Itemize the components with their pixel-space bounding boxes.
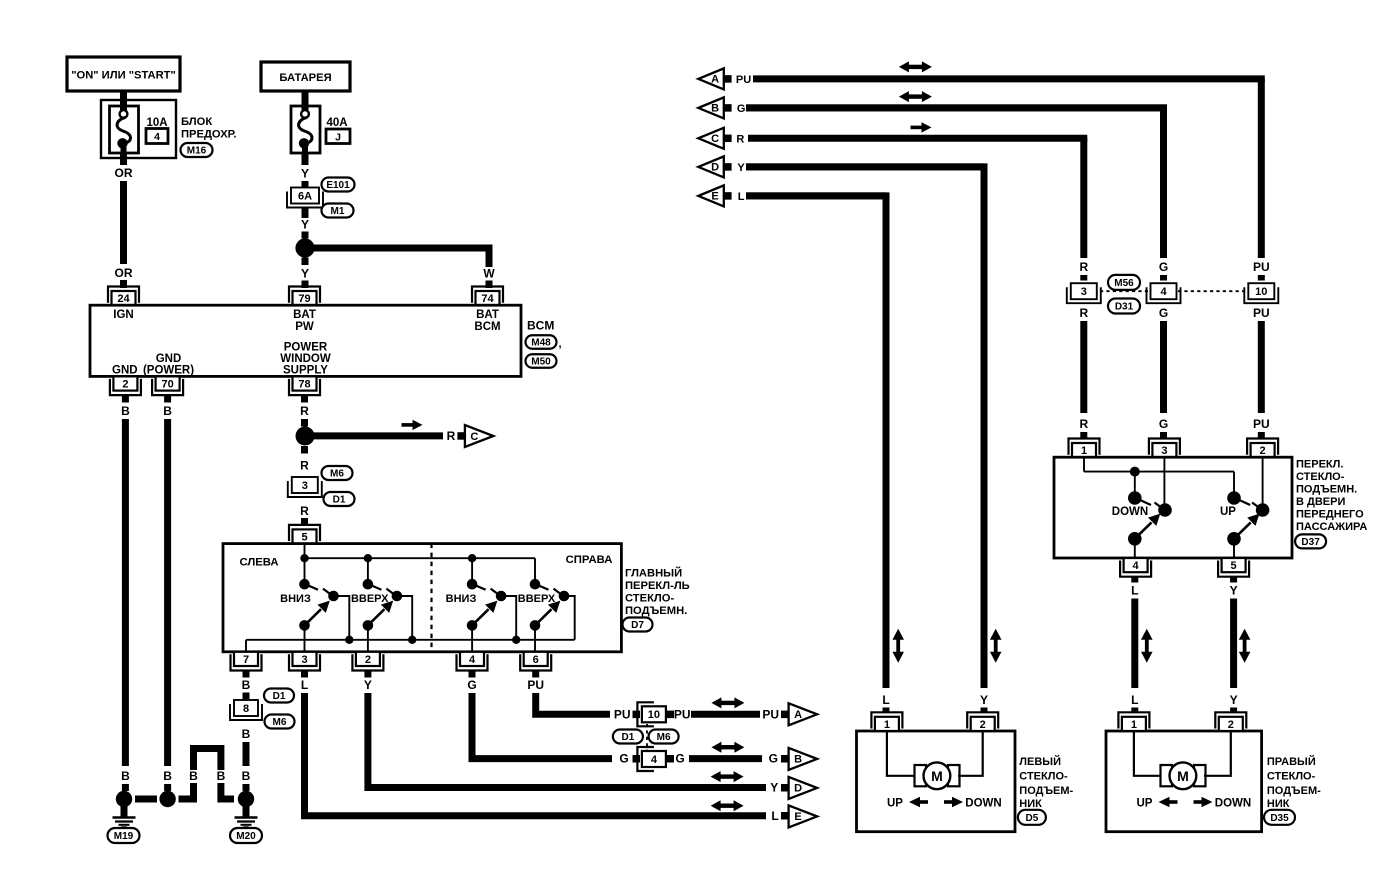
svg-text:L: L (771, 809, 778, 823)
pin 2 GND (110, 376, 141, 395)
connector oval D1 upper (324, 492, 355, 506)
triangle D left (698, 156, 724, 177)
pin 6 (520, 652, 551, 671)
double arrow L motor (892, 629, 904, 663)
svg-text:Y: Y (770, 781, 778, 795)
wire G row B horizontal (746, 104, 1167, 111)
wire B stub pin 7 (243, 671, 250, 678)
wire OR long segment (120, 181, 127, 264)
wire R vertical to conn 3 (1080, 138, 1087, 258)
label PU row A (736, 74, 751, 86)
svg-text:40A: 40A (326, 117, 347, 129)
label R above pin 5 (300, 504, 309, 518)
svg-text:74: 74 (481, 293, 494, 305)
svg-text:D: D (794, 783, 802, 795)
wire Y stub pin 2 (364, 671, 371, 678)
switch right down wire to pin (471, 625, 473, 651)
wire DOWN to pin 4 (1134, 539, 1136, 558)
label B below conn 8 (242, 727, 251, 741)
svg-text:W: W (483, 267, 495, 281)
square C row top (725, 135, 732, 143)
svg-text:D1: D1 (333, 495, 346, 506)
pin 3 (289, 652, 320, 671)
bottom bus dot 3 (512, 636, 520, 644)
svg-text:ВВЕРХ: ВВЕРХ (518, 593, 556, 605)
svg-text:4: 4 (651, 754, 658, 766)
double arrow G row (711, 742, 744, 753)
svg-text:GND: GND (156, 353, 182, 365)
svg-text:M6: M6 (273, 717, 287, 728)
svg-text:D35: D35 (1270, 813, 1289, 824)
svg-text:PU: PU (736, 74, 751, 86)
svg-text:СТЕКЛО-: СТЕКЛО- (625, 593, 674, 605)
wire L stub D35 pin 1 (1131, 708, 1138, 714)
fuse 10A F4 (110, 91, 139, 153)
switch right up contact dot (530, 579, 549, 590)
svg-text:C: C (470, 431, 478, 443)
svg-text:СТЕКЛО-: СТЕКЛО- (1296, 471, 1345, 483)
square R branch (457, 432, 465, 440)
square A row top (725, 75, 732, 83)
wire PU dash (1258, 275, 1265, 281)
svg-text:3: 3 (1081, 286, 1087, 298)
svg-text:G: G (675, 752, 684, 766)
D5 arrow right (944, 797, 963, 807)
svg-text:4: 4 (1133, 560, 1140, 572)
connector oval M48 (526, 335, 562, 350)
svg-text:2: 2 (1260, 445, 1266, 457)
label IGN (113, 309, 133, 321)
svg-text:M48: M48 (531, 338, 551, 349)
label L below pin 3 (301, 678, 308, 692)
fuse number box 4 (146, 129, 168, 144)
svg-text:M: M (931, 768, 943, 784)
svg-text:Y: Y (301, 167, 309, 181)
svg-text:M50: M50 (531, 357, 551, 368)
connector 3 inline (288, 477, 322, 497)
svg-text:R: R (300, 459, 309, 473)
svg-text:D1: D1 (273, 691, 286, 702)
switch right up lever arrow (530, 601, 561, 631)
svg-text:НИК: НИК (1019, 798, 1042, 810)
svg-text:6: 6 (533, 654, 539, 666)
triangle C left (698, 128, 724, 149)
svg-text:B: B (242, 678, 251, 692)
connector oval M1 (322, 204, 354, 218)
dashed link conn3 conn4 (1100, 290, 1149, 292)
svg-text:D: D (711, 162, 719, 174)
main switch box D7 (223, 544, 621, 652)
wire hump right (221, 783, 234, 799)
wire OR stub to pin 24 (120, 280, 127, 288)
label L above motor pin 1 (882, 693, 889, 707)
pin 7 (231, 652, 262, 671)
label PU below pin 6 (527, 678, 544, 692)
svg-text:2: 2 (1228, 719, 1234, 731)
wire pin 2 to UP moving (1262, 457, 1264, 510)
D5 wire pin1 to motor (887, 731, 915, 776)
svg-text:ВНИЗ: ВНИЗ (280, 593, 311, 605)
wire W stub (486, 281, 493, 289)
svg-text:В ДВЕРИ: В ДВЕРИ (1296, 496, 1345, 508)
top bus dot 1 (300, 554, 308, 562)
wire Y from fuse (302, 153, 309, 165)
svg-text:L: L (738, 191, 745, 203)
wire bus to DOWN contact (1134, 472, 1136, 498)
label B above M20 (242, 769, 251, 783)
svg-text:Y: Y (364, 678, 372, 692)
ground symbol M20 (235, 806, 258, 829)
wire G to triangle B (689, 755, 762, 762)
wire R dash (301, 419, 308, 427)
pin 78 supply (289, 376, 320, 395)
connector 10 top right (1244, 283, 1278, 303)
triangle A right (789, 703, 818, 725)
label DOWN (1112, 506, 1148, 518)
wire Y stub to pin 79 (302, 281, 309, 289)
svg-text:B: B (217, 769, 226, 783)
square Y row (781, 784, 789, 792)
connector 4 top right (1147, 283, 1181, 303)
svg-text:M20: M20 (236, 831, 256, 842)
D35 wire pin2 to motor (1204, 731, 1231, 776)
wire Y row D horizontal (746, 163, 984, 170)
label G row B (737, 103, 746, 115)
ground oval M19 (108, 828, 140, 843)
D35 pin 1 (1118, 712, 1149, 731)
wire R branch to C (313, 432, 443, 439)
wire bus to contact 2 (367, 558, 369, 584)
ground symbol M19 (113, 806, 136, 829)
wire B stub to M20 (243, 784, 250, 791)
label G right of conn 4 (675, 752, 684, 766)
wire bus corner to contact 4 (534, 558, 536, 584)
D5 motor M (924, 762, 951, 789)
svg-text:G: G (1159, 260, 1168, 274)
wire bus to contact 1 (304, 558, 306, 584)
wire Y vertical to motor D5 (746, 167, 984, 688)
svg-text:НИК: НИК (1267, 798, 1290, 810)
label R mid (300, 459, 309, 473)
wire PU stub pin 2 (1258, 432, 1265, 438)
label G below pin 4 (467, 678, 476, 692)
svg-text:2: 2 (122, 379, 128, 391)
top bus dot 3 (468, 554, 476, 562)
square D row top (725, 163, 732, 171)
label Y row D (737, 162, 745, 174)
D35 arrow left (1159, 797, 1178, 807)
svg-text:PU: PU (674, 707, 691, 721)
double arrow L D35 (1141, 629, 1153, 663)
bottom bus wire (246, 639, 575, 641)
svg-text:Y: Y (1230, 584, 1238, 598)
svg-text:D7: D7 (631, 620, 644, 631)
svg-text:E: E (711, 191, 718, 203)
svg-text:ПЕРЕКЛ.: ПЕРЕКЛ. (1296, 459, 1343, 471)
svg-text:L: L (1131, 693, 1138, 707)
svg-text:M1: M1 (331, 206, 345, 217)
wire R dash below junction (301, 446, 308, 454)
double arrow row B (899, 91, 932, 102)
connector oval M6 upper (322, 466, 353, 480)
switch left up wire to pin (367, 625, 369, 651)
wire G stub pin 3 (1160, 432, 1167, 438)
D37 bus dot (1130, 467, 1140, 477)
wire R stub to pin 5 (301, 518, 308, 525)
square G left (633, 755, 641, 763)
arrow right above R branch (402, 420, 423, 430)
svg-text:Y: Y (737, 162, 745, 174)
connector oval D37 (1295, 534, 1326, 548)
svg-text:7: 7 (243, 654, 249, 666)
svg-text:Y: Y (980, 693, 988, 707)
label B below pin 7 (242, 678, 251, 692)
switch left down wire to pin (304, 625, 306, 651)
svg-text:R: R (1079, 306, 1088, 320)
label BAT PW (293, 309, 316, 333)
label G left of conn 4 (619, 752, 628, 766)
svg-text:B: B (163, 404, 172, 418)
label БЛОК ПРЕДОХР. (181, 116, 237, 141)
svg-text:R: R (1079, 417, 1088, 431)
switch left up lever arrow (363, 601, 394, 631)
pin 79 BAT PW (289, 287, 320, 306)
label R above pin 1 (1079, 417, 1088, 431)
svg-text:БЛОК: БЛОК (181, 116, 212, 128)
svg-text:G: G (619, 752, 628, 766)
svg-text:E: E (794, 811, 801, 823)
pin 5 passenger switch (1218, 558, 1249, 577)
connector oval E101 (322, 178, 355, 192)
bottom bus dot 1 (345, 636, 353, 644)
D35 label UP (1137, 798, 1153, 810)
label R below conn 3 (1079, 306, 1088, 320)
wire R stub pin 1 (1080, 432, 1087, 438)
label R row C (736, 133, 744, 145)
svg-text:"ON" ИЛИ "START": "ON" ИЛИ "START" (71, 70, 176, 82)
square PU right (667, 711, 675, 719)
connector oval M6 bottom (649, 730, 679, 744)
svg-text:B: B (711, 103, 719, 115)
label OR (115, 166, 133, 180)
wire pin 3 to DOWN moving (1163, 457, 1165, 510)
wire from ON box to fuse (120, 91, 127, 104)
square B row top (725, 104, 732, 112)
label Y row (770, 781, 778, 795)
label G row (769, 752, 778, 766)
svg-text:5: 5 (301, 531, 307, 543)
DOWN contact dot (1128, 491, 1151, 505)
wire G vertical to conn 4 (746, 108, 1164, 258)
label 40A (326, 117, 347, 129)
wire G to conn 4 (472, 693, 612, 759)
double arrow Y row (711, 771, 744, 782)
D35 motor brackets (1161, 765, 1206, 786)
svg-text:PU: PU (1253, 306, 1270, 320)
DOWN bottom dot (1128, 532, 1142, 546)
wire between ground dots (135, 796, 157, 803)
wire B stub pin 70 (164, 395, 171, 403)
connector oval M50 (526, 354, 557, 368)
D35 motor M (1170, 762, 1197, 789)
square PU left (633, 711, 641, 719)
wire B long (243, 742, 250, 766)
svg-text:BAT: BAT (293, 309, 316, 321)
svg-text:D37: D37 (1301, 537, 1320, 548)
svg-text:C: C (711, 133, 719, 145)
svg-text:M16: M16 (187, 146, 207, 157)
svg-text:СТЕКЛО-: СТЕКЛО- (1019, 771, 1068, 783)
square PU row (781, 711, 789, 719)
triangle E left (698, 185, 724, 206)
label L row E (738, 191, 745, 203)
D5 wire pin2 to motor (958, 731, 983, 776)
dashed link conn4 conn10 (1178, 290, 1247, 292)
svg-text:ПОДЪЕМ-: ПОДЪЕМ- (1019, 785, 1073, 797)
wire pin5 into box (304, 544, 306, 559)
svg-text:M6: M6 (657, 732, 671, 743)
svg-text:6A: 6A (298, 190, 312, 202)
label W (483, 267, 495, 281)
wire R row C horizontal (748, 135, 1087, 142)
label B pin2 (121, 404, 130, 418)
DOWN moving dot (1155, 503, 1172, 517)
svg-text:M56: M56 (1114, 278, 1134, 289)
switch left up moving contact (386, 589, 402, 602)
switch left down lever arrow (299, 601, 330, 631)
label ВНИЗ right (446, 593, 477, 605)
svg-text:СЛЕВА: СЛЕВА (239, 557, 278, 569)
right window motor box D35 (1106, 731, 1262, 832)
wire battery to fuse (302, 91, 309, 104)
box БАТАРЕЯ (261, 62, 350, 91)
wire B long pin 2 (122, 419, 129, 766)
UP moving dot (1252, 503, 1269, 517)
triangle B left (698, 97, 724, 118)
dashed divider (430, 544, 432, 652)
svg-text:1: 1 (1131, 719, 1137, 731)
label ВВЕРХ right (518, 593, 556, 605)
switch right down contact dot (467, 579, 486, 590)
svg-text:DOWN: DOWN (1112, 506, 1148, 518)
svg-text:L: L (301, 678, 308, 692)
svg-text:10: 10 (1255, 286, 1267, 298)
svg-text:B: B (189, 769, 198, 783)
switch right down lever arrow (467, 601, 498, 631)
pin 4 passenger switch (1120, 558, 1151, 577)
svg-text:8: 8 (243, 703, 249, 715)
wire PU stub pin 6 (532, 671, 539, 678)
svg-text:(POWER): (POWER) (143, 365, 194, 377)
label GND (POWER) (143, 353, 194, 377)
label PU above conn 10 (1253, 260, 1270, 274)
svg-text:PU: PU (1253, 260, 1270, 274)
svg-text:1: 1 (884, 719, 890, 731)
svg-text:B: B (242, 769, 251, 783)
label B lower mid (163, 769, 172, 783)
wire UP to pin 5 (1233, 539, 1235, 558)
svg-text:G: G (467, 678, 476, 692)
switch left down contact dot (299, 579, 318, 590)
svg-text:R: R (300, 504, 309, 518)
svg-text:79: 79 (298, 293, 310, 305)
wire B stub to ground dot (164, 784, 171, 791)
label B hump left (189, 769, 198, 783)
label L above D35 pin 1 (1131, 693, 1138, 707)
fuse block M16 outer box (101, 100, 176, 158)
pin 5 main switch (289, 525, 320, 544)
connector oval M6 lower (265, 715, 295, 729)
connector 4 inline horizontal (637, 747, 666, 771)
svg-text:,: , (559, 338, 562, 350)
svg-text:L: L (1131, 584, 1138, 598)
wire B stub to ground M19 (122, 784, 129, 791)
ground junction dot M20 (238, 791, 254, 807)
pin 70 GND POWER (152, 376, 183, 395)
connector oval M56 (1108, 275, 1140, 290)
svg-text:PU: PU (1253, 417, 1270, 431)
square G right (667, 755, 675, 763)
connector oval D1 bottom (613, 730, 643, 744)
arrow right row C (911, 122, 932, 132)
D37 top bus (1084, 471, 1234, 473)
svg-text:PU: PU (527, 678, 544, 692)
svg-text:BCM: BCM (474, 321, 500, 333)
wire PU to triangle A (691, 711, 760, 718)
wire B dash (243, 693, 250, 700)
label 10A (146, 117, 167, 129)
svg-text:PU: PU (614, 707, 631, 721)
pin 74 BAT BCM (472, 287, 503, 306)
svg-text:3: 3 (301, 654, 307, 666)
D5 pin 2 (967, 712, 998, 731)
double arrow Y D35 (1239, 629, 1251, 663)
D35 pin 2 (1215, 712, 1246, 731)
svg-text:ГЛАВНЫЙ: ГЛАВНЫЙ (625, 567, 682, 580)
switch left up contact dot (363, 579, 382, 590)
wire L vertical to motor D5 (746, 196, 886, 688)
D5 arrow left (909, 797, 928, 807)
svg-text:1: 1 (1081, 445, 1087, 457)
svg-text:B: B (794, 754, 802, 766)
wire L stub motor pin 1 (883, 708, 890, 714)
svg-text:L: L (882, 693, 889, 707)
svg-text:A: A (711, 74, 719, 86)
svg-text:ПОДЪЕМН.: ПОДЪЕМН. (625, 605, 687, 617)
wire G long to pin 3 (1160, 321, 1167, 413)
wire L stub pin 3 (301, 671, 308, 678)
pin 4 (457, 652, 488, 671)
label POWER WINDOW SUPPLY (280, 342, 331, 377)
wire Y stub D35 pin 2 (1230, 708, 1237, 714)
svg-text:PW: PW (295, 321, 314, 333)
wire B long pin 70 (164, 419, 171, 766)
svg-text:M6: M6 (330, 469, 344, 480)
fuse 40A J (291, 91, 320, 153)
wire Y dash below 6A (302, 209, 309, 219)
square G row (781, 755, 789, 763)
D5 label DOWN (965, 798, 1001, 810)
wire PU row A horizontal (753, 75, 1265, 82)
svg-text:G: G (1159, 306, 1168, 320)
svg-text:4: 4 (469, 654, 476, 666)
wire PU long to pin 2 (1258, 321, 1265, 413)
top bus dot 2 (364, 554, 372, 562)
wire OR upper segment (120, 153, 127, 165)
svg-text:ПРАВЫЙ: ПРАВЫЙ (1267, 755, 1316, 768)
svg-text:G: G (737, 103, 746, 115)
label СЛЕВА (239, 557, 278, 569)
